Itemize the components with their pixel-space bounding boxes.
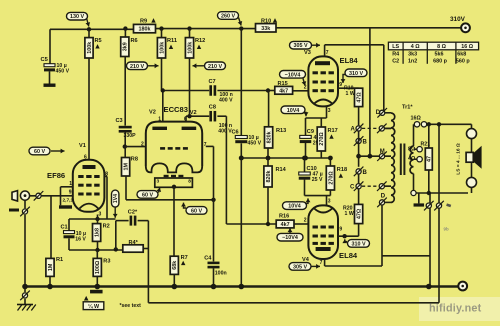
V2 anode bar b bbox=[182, 127, 197, 130]
link circles 16ohm bbox=[414, 122, 419, 127]
resistor R5 100k bbox=[87, 27, 91, 31]
svg-text:C2: C2 bbox=[392, 59, 399, 65]
V3 grid dashes row3 bbox=[313, 89, 318, 92]
svg-text:R14: R14 bbox=[276, 167, 287, 173]
wire cathode bottom node bbox=[69, 249, 123, 251]
svg-text:260 V: 260 V bbox=[221, 14, 235, 20]
svg-text:8 Ω: 8 Ω bbox=[437, 44, 446, 50]
svg-text:R1: R1 bbox=[56, 257, 63, 263]
svg-text:1 W: 1 W bbox=[345, 211, 354, 217]
wire V3 grid line bbox=[268, 90, 275, 92]
svg-text:68k: 68k bbox=[172, 261, 178, 270]
svg-text:6: 6 bbox=[84, 154, 87, 160]
arrow 260V to C6 line bbox=[239, 18, 242, 26]
wire D lower down to V4 anode bbox=[381, 205, 383, 266]
svg-text:3k9: 3k9 bbox=[123, 42, 129, 51]
resistor R17 270R bbox=[320, 118, 322, 127]
ground terminal bbox=[458, 282, 467, 291]
svg-text:7: 7 bbox=[326, 50, 329, 56]
node 305V oval V4 bbox=[289, 263, 311, 271]
V2 anode bar a bbox=[152, 127, 167, 130]
svg-text:25 V: 25 V bbox=[312, 177, 323, 183]
wire C to R20 bbox=[358, 189, 360, 204]
wire V1 cathode node bbox=[97, 215, 99, 220]
wire V4 cathode stub bbox=[326, 196, 328, 206]
svg-text:310 V: 310 V bbox=[351, 241, 365, 247]
svg-text:450 V: 450 V bbox=[56, 69, 70, 75]
node junction C6/ground bus bbox=[239, 156, 244, 161]
svg-text:R4: R4 bbox=[392, 52, 399, 58]
svg-text:R6: R6 bbox=[131, 38, 138, 44]
wire top rail left segment bbox=[50, 28, 134, 30]
svg-text:270Ω: 270Ω bbox=[319, 132, 325, 146]
svg-text:47Ω: 47Ω bbox=[357, 92, 363, 103]
wire cathode ground bus bbox=[241, 157, 331, 159]
svg-text:hifidiy.net: hifidiy.net bbox=[429, 303, 482, 315]
wire R15 to V3 grid bbox=[293, 90, 309, 92]
svg-text:LS: LS bbox=[392, 44, 399, 50]
contact B upper bbox=[356, 138, 361, 143]
svg-text:210 V: 210 V bbox=[130, 64, 144, 70]
wire R16 to V4 grid bbox=[294, 223, 308, 225]
svg-text:1: 1 bbox=[158, 117, 161, 123]
svg-text:210 V: 210 V bbox=[208, 64, 222, 70]
resistor R11 100k bbox=[159, 26, 163, 30]
dashed link C to tap bbox=[362, 185, 379, 187]
arrow 305V to anode wire bbox=[312, 44, 320, 46]
input jack bbox=[12, 191, 18, 201]
wire feedback rise to 16ohm tap bbox=[438, 124, 440, 302]
wire R11 to V2 anode a bbox=[161, 58, 163, 91]
wire V3 anode to transformer bbox=[324, 45, 326, 57]
svg-text:820k: 820k bbox=[267, 131, 273, 143]
wire jack sleeve down bbox=[24, 200, 26, 208]
svg-text:1M: 1M bbox=[48, 263, 54, 271]
svg-text:100n: 100n bbox=[215, 270, 227, 276]
node 210V oval left bbox=[127, 62, 148, 70]
V4 grid dashes row2 bbox=[313, 235, 318, 238]
node 130V supply oval bbox=[67, 12, 88, 20]
svg-text:7: 7 bbox=[320, 260, 323, 266]
wire speaker return bbox=[471, 187, 473, 193]
svg-text:2,7,1: 2,7,1 bbox=[63, 197, 74, 203]
svg-text:3: 3 bbox=[99, 212, 102, 218]
svg-text:60 V: 60 V bbox=[191, 208, 202, 214]
wire V2 pin6 stub bbox=[185, 116, 187, 121]
wire secondary top riser bbox=[413, 124, 415, 146]
contact B lower bbox=[356, 169, 361, 174]
wire secondary common line bbox=[416, 192, 468, 194]
V3 grid dashes row2 bbox=[313, 81, 318, 84]
resistor R1 1M bbox=[50, 196, 52, 259]
svg-text:V4: V4 bbox=[302, 257, 310, 263]
svg-text:C2*: C2* bbox=[128, 209, 138, 215]
svg-text:1V4: 1V4 bbox=[113, 194, 119, 203]
V1 anode bar bbox=[83, 165, 96, 169]
resistor R14 820k bbox=[267, 158, 269, 166]
contact ground link bbox=[426, 203, 431, 208]
svg-text:1n2: 1n2 bbox=[408, 59, 417, 65]
contact to earth bbox=[22, 293, 27, 298]
node junction bus/C4 bbox=[211, 198, 215, 202]
svg-text:820k: 820k bbox=[266, 171, 272, 183]
V4 grid dashes row3 bbox=[313, 242, 318, 245]
svg-text:60 V: 60 V bbox=[142, 192, 153, 198]
svg-text:R3: R3 bbox=[103, 258, 110, 264]
arrow 210V to R12 wire bbox=[193, 65, 205, 67]
node junction M line bbox=[356, 154, 361, 159]
svg-text:C8: C8 bbox=[209, 105, 216, 111]
wire R21 bottom bbox=[428, 170, 430, 193]
arrow 305V V4 to anode wire bbox=[312, 265, 321, 267]
arrow 1V4 to cathode wire bbox=[114, 207, 116, 218]
svg-text:680 p: 680 p bbox=[433, 59, 447, 65]
wire B+ drop to M bbox=[369, 28, 371, 156]
watermark background patch bbox=[419, 297, 500, 321]
svg-text:C5: C5 bbox=[41, 57, 49, 63]
wire V3 screen to R19 bbox=[338, 87, 359, 89]
Tr1 core bbox=[400, 144, 402, 176]
arrow 10V4 V4 bbox=[305, 198, 308, 203]
svg-text:V1: V1 bbox=[79, 143, 86, 149]
wire V4 anode to D bbox=[324, 259, 326, 266]
svg-text:16 Ω: 16 Ω bbox=[461, 44, 473, 50]
svg-text:2: 2 bbox=[304, 218, 307, 224]
arrow -10V4 to grid wire bbox=[303, 79, 305, 86]
contact on input wire bbox=[36, 193, 41, 198]
svg-text:C1: C1 bbox=[61, 225, 68, 231]
wire rail right segment bbox=[276, 27, 461, 29]
wire 16ohm to speaker bbox=[471, 124, 473, 129]
tiny mark near contacts bbox=[446, 203, 451, 207]
svg-text:V2: V2 bbox=[149, 110, 156, 116]
wire B to C bbox=[358, 174, 360, 183]
contact M bbox=[379, 154, 384, 159]
svg-text:100k: 100k bbox=[187, 42, 193, 54]
wire R12 to V2 anode b bbox=[189, 58, 191, 116]
svg-text:10V4: 10V4 bbox=[287, 108, 300, 114]
svg-text:16 V: 16 V bbox=[75, 237, 86, 243]
svg-text:Tr1*: Tr1* bbox=[402, 105, 413, 111]
svg-text:3k3: 3k3 bbox=[408, 52, 417, 58]
V3 anode bar bbox=[315, 61, 330, 65]
V1 grid dashes row2 bbox=[78, 184, 83, 187]
svg-text:1 W: 1 W bbox=[346, 91, 355, 97]
svg-text:EL84: EL84 bbox=[339, 251, 358, 260]
svg-text:305 V: 305 V bbox=[293, 43, 307, 49]
arrow 60V V2b to bus bbox=[184, 203, 187, 208]
V3 cathode arc bbox=[314, 100, 332, 104]
svg-text:¼ W: ¼ W bbox=[88, 303, 100, 310]
svg-text:ECC83: ECC83 bbox=[164, 105, 188, 114]
node 60V oval at V1 bbox=[29, 147, 50, 155]
svg-text:100Ω: 100Ω bbox=[95, 260, 101, 274]
wire speaker internal bbox=[471, 139, 473, 153]
wire R8 top bbox=[124, 147, 126, 158]
svg-text:270Ω: 270Ω bbox=[328, 171, 334, 185]
ground bar under jack bbox=[9, 209, 19, 212]
arrow -10V4 V4 bbox=[289, 228, 291, 233]
wire 260V line down bbox=[239, 26, 243, 30]
wire contact chain bbox=[358, 131, 360, 167]
svg-text:8: 8 bbox=[188, 179, 191, 185]
wire ground rail bbox=[25, 285, 458, 288]
svg-text:3: 3 bbox=[328, 199, 331, 205]
arrow 210V to R11 wire bbox=[148, 65, 159, 67]
wire R6 down to C3 bbox=[124, 57, 126, 126]
V2 grid dashes bbox=[160, 147, 165, 150]
svg-text:1M: 1M bbox=[123, 163, 129, 171]
svg-text:C3: C3 bbox=[116, 118, 123, 124]
svg-text:B: B bbox=[363, 170, 368, 176]
wire V1 pin8 down bbox=[106, 176, 108, 219]
wire feedback line bottom bbox=[148, 302, 439, 304]
node 1V4 pill bbox=[112, 190, 119, 207]
svg-text:9: 9 bbox=[339, 227, 342, 233]
svg-text:V3: V3 bbox=[304, 50, 311, 56]
svg-text:33k: 33k bbox=[261, 26, 270, 32]
dashed link A to tap bbox=[362, 127, 379, 129]
earth ground symbol bbox=[17, 304, 33, 306]
node 260V oval bbox=[218, 12, 239, 20]
svg-text:9b: 9b bbox=[444, 227, 449, 232]
V4 cathode arc bbox=[314, 208, 332, 212]
svg-text:C7: C7 bbox=[209, 79, 216, 85]
svg-text:R7: R7 bbox=[181, 255, 188, 261]
svg-text:180k: 180k bbox=[139, 27, 151, 33]
svg-text:400 V: 400 V bbox=[218, 129, 232, 135]
svg-text:9: 9 bbox=[339, 82, 342, 88]
resistor R13 820k bbox=[268, 91, 270, 127]
svg-text:4k7: 4k7 bbox=[281, 222, 290, 228]
svg-text:1k8: 1k8 bbox=[94, 228, 100, 237]
svg-text:2: 2 bbox=[141, 141, 144, 147]
resistor R12 100k bbox=[187, 26, 191, 30]
svg-text:−10V4: −10V4 bbox=[285, 72, 301, 78]
V1 cathode arc bbox=[80, 204, 99, 209]
contact tap lower bbox=[379, 184, 384, 189]
V2 heater dashes bbox=[164, 175, 169, 177]
svg-text:400 V: 400 V bbox=[219, 98, 233, 104]
svg-text:16Ω: 16Ω bbox=[411, 115, 422, 121]
svg-text:R8: R8 bbox=[131, 157, 138, 163]
svg-text:EL84: EL84 bbox=[340, 56, 359, 65]
resistor R7 68k bbox=[170, 256, 178, 274]
node 310V oval V3 screen bbox=[345, 69, 367, 77]
wire R1 to rail bbox=[49, 276, 51, 286]
Tr1 secondary winding bbox=[410, 146, 413, 174]
wire 16ohm line bbox=[427, 123, 472, 125]
V2 base rect bbox=[155, 178, 193, 187]
node 10V4 oval V3 bbox=[281, 106, 305, 114]
Tr1 primary winding bbox=[391, 113, 395, 203]
svg-text:100k: 100k bbox=[159, 42, 165, 54]
ground bar on common bbox=[418, 193, 420, 203]
svg-text:*see text: *see text bbox=[120, 303, 142, 309]
speaker bottom terminal bbox=[467, 177, 477, 187]
contact tap upper bbox=[379, 126, 384, 131]
node grid a junction bbox=[123, 144, 127, 148]
svg-text:47Ω: 47Ω bbox=[357, 208, 363, 219]
wire secondary bottom riser bbox=[413, 174, 415, 191]
speaker top terminal bbox=[467, 129, 477, 139]
V1 grid dashes row3 bbox=[78, 193, 83, 196]
svg-text:305 V: 305 V bbox=[293, 264, 307, 270]
svg-text:310V: 310V bbox=[450, 16, 466, 23]
arrow 130V to rail bbox=[87, 18, 89, 27]
svg-text:4k7: 4k7 bbox=[279, 88, 288, 94]
Tr1 primary taps bbox=[385, 127, 391, 129]
svg-text:10V4: 10V4 bbox=[288, 204, 301, 210]
wire C6 to ground bus bbox=[240, 143, 242, 158]
wire V4 screen to R20 bbox=[338, 235, 359, 237]
resistor R18 270R bbox=[329, 158, 331, 166]
node 210V oval right bbox=[205, 62, 226, 70]
contact feedback link bbox=[436, 203, 441, 208]
wire R19 to contact A bbox=[358, 107, 360, 126]
resistor R2 1k8 bbox=[97, 219, 99, 224]
svg-text:2: 2 bbox=[304, 85, 307, 91]
loudspeaker LS bbox=[466, 152, 473, 162]
arrow 60V to pin3 bbox=[159, 188, 160, 193]
wire R7 to rail bbox=[173, 274, 175, 286]
svg-text:B: B bbox=[363, 140, 368, 146]
svg-text:−10V4: −10V4 bbox=[282, 235, 298, 241]
svg-text:R12: R12 bbox=[195, 38, 205, 44]
node 60V oval V2b bbox=[186, 207, 207, 215]
wire R5 to V1 anode bbox=[88, 58, 90, 160]
svg-text:310 V: 310 V bbox=[349, 71, 363, 77]
node 305V oval V3 bbox=[290, 41, 312, 49]
rail junction dots bbox=[22, 284, 28, 290]
svg-text:R5: R5 bbox=[95, 38, 102, 44]
V1 grid dashes row1 bbox=[78, 175, 83, 178]
table output matching header bbox=[388, 42, 478, 50]
svg-text:9: 9 bbox=[69, 190, 72, 196]
svg-text:5k6: 5k6 bbox=[435, 52, 444, 58]
secondary common tap circle bbox=[411, 190, 416, 195]
wire V1 pin1/2/7 to ground bbox=[61, 186, 73, 188]
wire rail mid segment bbox=[156, 28, 257, 30]
node 310V oval V4 bbox=[348, 240, 370, 248]
arrow 310V V4 to screen bbox=[345, 239, 347, 241]
wire R21 top bbox=[428, 124, 430, 148]
V4 anode bar bbox=[316, 247, 331, 251]
svg-text:C6: C6 bbox=[232, 129, 239, 135]
svg-text:LS = 4 ... 16 Ω: LS = 4 ... 16 Ω bbox=[456, 143, 462, 175]
wire V2 cathode down bbox=[172, 185, 176, 189]
wire secondary common drop bbox=[429, 193, 431, 287]
arrow 60V to V1 wire bbox=[51, 150, 65, 152]
V3 grid dashes row1 bbox=[313, 71, 318, 74]
svg-text:EF86: EF86 bbox=[47, 171, 65, 180]
svg-text:R17: R17 bbox=[328, 128, 338, 134]
wire C8 down to V4 grid bbox=[225, 116, 227, 224]
wire V4 cathode line bbox=[305, 195, 331, 197]
wire V3 cathode bbox=[326, 106, 328, 118]
resistor R3 100 bbox=[96, 250, 98, 258]
wire R8 down to screen bus bbox=[125, 176, 127, 200]
svg-text:R13: R13 bbox=[276, 128, 286, 134]
svg-text:6k8: 6k8 bbox=[457, 52, 466, 58]
wire bus down to ground rail bbox=[240, 158, 242, 287]
wire V2 pin1 stub bbox=[162, 91, 164, 122]
svg-text:3: 3 bbox=[157, 179, 160, 185]
wire feedback node down bbox=[147, 221, 149, 303]
wire C3 to grid node bbox=[124, 132, 126, 146]
wire grid a to V2 pin2 bbox=[125, 146, 146, 148]
wire screen bus bbox=[126, 199, 214, 201]
svg-text:130 V: 130 V bbox=[70, 14, 84, 20]
arrow 10V4 to cathode wire bbox=[304, 113, 307, 117]
resistor R6 3k9 bbox=[123, 26, 127, 30]
wire jack to grid bbox=[30, 195, 73, 197]
svg-text:R11: R11 bbox=[167, 38, 177, 44]
svg-text:C: C bbox=[350, 185, 355, 191]
wire V2 pin7 down bbox=[206, 145, 214, 147]
contact jack sleeve bbox=[22, 209, 27, 214]
V4 grid dashes row1 bbox=[313, 226, 318, 229]
svg-text:450 V: 450 V bbox=[248, 141, 262, 147]
svg-text:100k: 100k bbox=[87, 42, 93, 54]
node -10V4 oval V3 bbox=[280, 71, 306, 79]
svg-text:R16: R16 bbox=[279, 214, 289, 220]
svg-text:C4: C4 bbox=[204, 255, 212, 261]
legend ground bar under R3 bbox=[90, 290, 103, 294]
V2 cathode scallops bbox=[146, 163, 202, 172]
svg-text:560 p: 560 p bbox=[456, 59, 470, 65]
arrow 310V to screen wire bbox=[343, 75, 345, 84]
svg-text:R18: R18 bbox=[337, 167, 347, 173]
svg-text:4 Ω: 4 Ω bbox=[411, 44, 420, 50]
svg-text:3: 3 bbox=[328, 108, 331, 114]
legend quarter watt bbox=[84, 296, 89, 301]
node -10V4 oval V4 bbox=[277, 233, 303, 241]
node 60V oval V2a bbox=[137, 191, 158, 199]
svg-text:60 V: 60 V bbox=[34, 149, 45, 155]
svg-text:R2: R2 bbox=[103, 223, 110, 229]
svg-text:47: 47 bbox=[427, 156, 433, 162]
node 10V4 oval V4 bbox=[283, 202, 307, 210]
wire rail to C5 bbox=[49, 29, 51, 63]
resistor R8 1M bbox=[122, 158, 130, 177]
wire link to ground drop bbox=[382, 255, 430, 257]
